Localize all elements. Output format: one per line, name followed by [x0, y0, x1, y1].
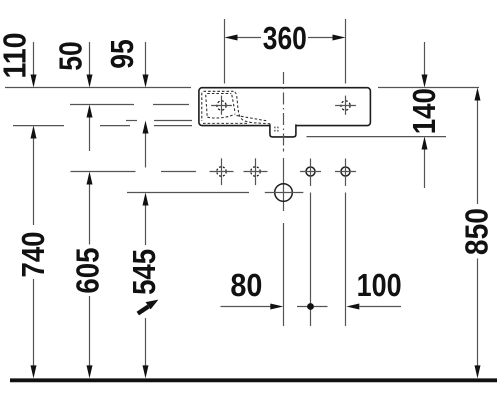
svg-text:605: 605	[69, 248, 105, 294]
dimension 360 line + arrows	[225, 35, 346, 41]
dimension 95 bottom arrow	[143, 121, 149, 168]
apron bottom line (140 ref)	[307, 136, 447, 138]
tap hole left	[211, 96, 232, 115]
fixing hole alt right	[244, 158, 268, 185]
tap-hole level line (50) seg1	[70, 104, 134, 106]
svg-text:110: 110	[0, 33, 32, 79]
tap-hole level line (50) seg2	[153, 104, 189, 106]
bowl depth line (95) seg2	[154, 120, 192, 122]
svg-text:50: 50	[53, 41, 89, 71]
fixing hole left (solid)	[300, 159, 321, 187]
dimension 140 top arrow	[422, 42, 428, 88]
ceramic bottom line (110) seg3	[154, 125, 192, 127]
ceramic bottom line (110) seg2	[100, 125, 130, 127]
centerline dot	[283, 149, 285, 152]
siphon / drain circle	[265, 184, 304, 202]
floor line	[10, 378, 497, 382]
dimension 360 extension line left	[224, 19, 226, 84]
basin centerline (dash-dot)	[283, 72, 285, 147]
bowl depth line (95) seg1	[126, 120, 137, 122]
dimension 140 bottom arrow	[422, 137, 428, 189]
dimension 850 line bottom arrow	[475, 259, 481, 379]
drain tailpiece	[270, 124, 296, 136]
svg-text:850: 850	[459, 208, 495, 255]
common point dot	[297, 303, 328, 310]
extension line below right solid hole	[345, 193, 347, 327]
centerline through siphon circle	[283, 158, 285, 211]
extension line below left solid hole	[310, 193, 312, 327]
bowl hidden outline (outer dashed)	[202, 91, 272, 124]
svg-text:740: 740	[15, 232, 51, 278]
rim top reference line (left)	[5, 87, 191, 89]
dimension 100 line + arrow	[346, 304, 401, 310]
basin outline	[199, 88, 371, 126]
svg-text:95: 95	[104, 39, 140, 69]
dimension 850 line top arrow	[475, 88, 481, 205]
rim top reference line (right)	[378, 87, 479, 89]
tap hole right	[335, 96, 356, 115]
svg-text:545: 545	[126, 249, 162, 295]
siphon level line	[127, 192, 249, 194]
fixing hole right (solid)	[335, 159, 356, 187]
bowl hidden outline (inner dashed)	[206, 94, 268, 122]
svg-text:100: 100	[357, 267, 402, 303]
dimension 80 line + arrow	[221, 304, 284, 310]
svg-text:140: 140	[406, 88, 442, 134]
dimension 545 lower leader	[143, 318, 149, 378]
svg-text:360: 360	[263, 20, 307, 56]
dimension 110 leader top	[31, 42, 37, 88]
dimension 50 leader top	[87, 42, 93, 88]
drain mouth hidden lines	[275, 127, 278, 133]
svg-text:80: 80	[230, 267, 262, 303]
dimension 50 bottom arrow	[87, 105, 93, 152]
adjustability arrow (diagonal)	[138, 300, 159, 314]
fixing-hole level line seg2	[161, 171, 196, 173]
dimension 740 lower leader	[31, 279, 37, 378]
fixing hole alt left	[210, 158, 234, 185]
dimension 605 top arrow	[87, 172, 93, 245]
dimension 360 extension line right	[345, 19, 347, 84]
dimension 110/740 shared up arrow	[31, 126, 37, 226]
fixing-hole level line seg1	[71, 171, 136, 173]
dimension 545 top arrow	[143, 193, 149, 246]
centerline lower segment	[283, 223, 285, 326]
dimension 605 lower leader	[87, 296, 93, 378]
dimension 95 leader top	[143, 42, 149, 88]
ceramic bottom line (110) seg1	[13, 125, 64, 127]
